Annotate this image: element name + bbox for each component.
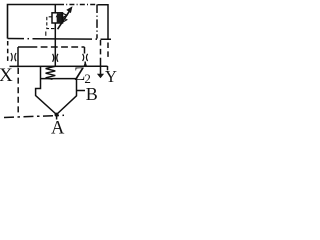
wire Y pilot line (dashed) (100, 40, 102, 62)
svg-text:Y: Y (105, 67, 117, 86)
housing outline top-right corner (solid) (98, 5, 109, 40)
pilot relief valve V1 internal flow arrow (56, 13, 62, 23)
port face line (10, 66, 108, 70)
main stage spring (46, 66, 56, 79)
wire B port line (77, 90, 86, 92)
pilot relief valve V1 adjustment arrow (58, 6, 73, 29)
pilot sensing line (dashed) at V1 (46, 17, 56, 36)
svg-text:B: B (86, 84, 98, 104)
wire X port line (solid part) (17, 47, 19, 68)
orifice O2 in pilot line (53, 47, 58, 66)
enclosure chain line, top edge (59, 4, 97, 6)
wire pilot valve outlet stub (54, 5, 56, 13)
node A junction dot (55, 113, 59, 117)
pilot relief valve V1 spring (63, 13, 67, 22)
chain divider line mid (8, 38, 112, 41)
svg-text:X: X (0, 65, 13, 86)
wire Y port with flow arrow (97, 62, 104, 78)
housing outline top-left (solid) (8, 5, 60, 39)
enclosure chain line, right vertical (96, 5, 98, 39)
orifice O1 in X passage (11, 53, 16, 61)
enclosure chain line, left edge (7, 41, 9, 64)
wire pilot vertical below V1 (54, 23, 56, 47)
svg-text:A: A (51, 119, 65, 139)
enclosure chain line, right edge lower (107, 43, 109, 58)
main poppet cartridge body with seat (36, 67, 77, 115)
pilot relief valve V1 body (52, 13, 63, 23)
pilot channel dashed line (18, 46, 85, 48)
mounting face chain line (4, 115, 64, 117)
wire A port stub (56, 115, 58, 120)
wire Z2 branch with orifice O3 and flow arrow (83, 47, 88, 67)
wire X port line (dashed part) (17, 68, 19, 115)
